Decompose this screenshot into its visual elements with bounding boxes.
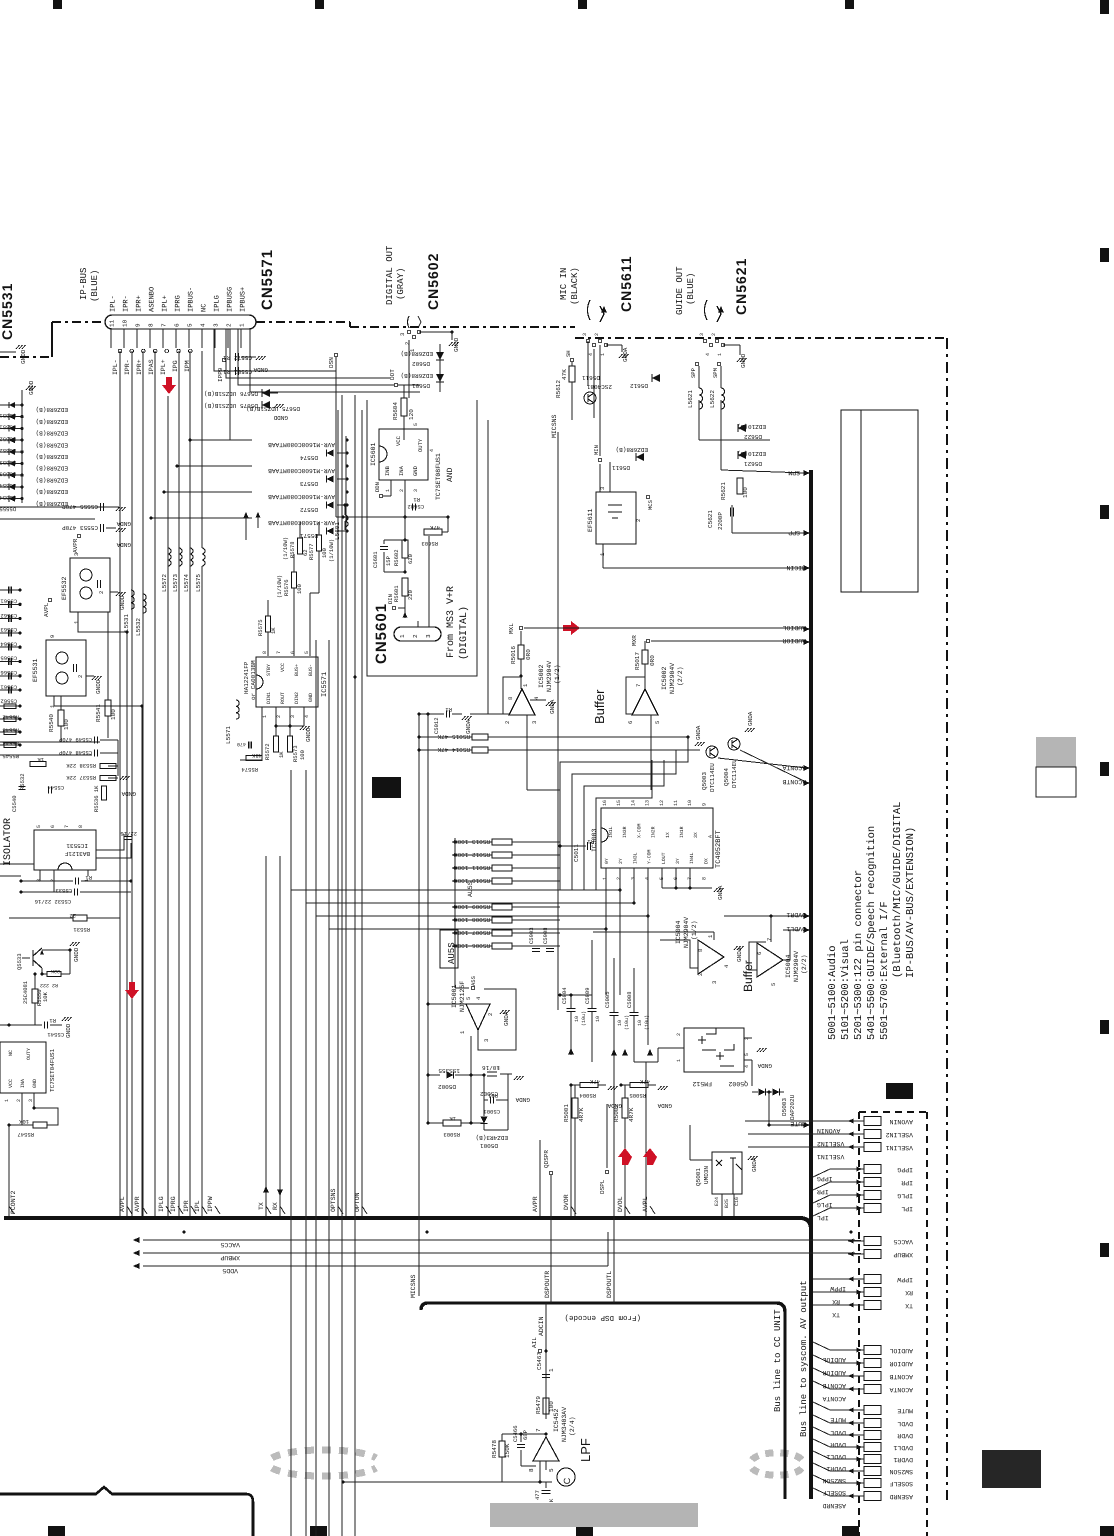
svg-text:ACONTB: ACONTB — [889, 1373, 913, 1380]
svg-text:2: 2 — [404, 342, 411, 345]
svg-text:1K: 1K — [270, 627, 277, 634]
transformer EF5532 — [70, 558, 110, 612]
wires around R557x — [299, 522, 301, 538]
inductors L5572-L5575 in IP lines — [168, 548, 171, 566]
svg-text:10K: 10K — [42, 991, 49, 1002]
svg-text:D5612: D5612 — [630, 382, 648, 389]
svg-text:R5537 22K: R5537 22K — [66, 774, 96, 781]
svg-text:GNDA: GNDA — [751, 1157, 758, 1172]
svg-text:IPL-: IPL- — [112, 359, 119, 375]
wire SPP to bus — [731, 505, 733, 533]
diode rows right rail — [345, 436, 347, 1216]
capacitor C5555 470P — [100, 503, 102, 511]
svg-text:TC7SET08FUS1: TC7SET08FUS1 — [435, 453, 442, 500]
svg-text:IPBUS+: IPBUS+ — [240, 287, 248, 312]
svg-text:NC: NC — [201, 304, 209, 312]
svg-text:5: 5 — [304, 651, 310, 654]
svg-text:QDSPR: QDSPR — [543, 1150, 550, 1168]
svg-text:R5604: R5604 — [392, 402, 399, 420]
svg-text:3: 3 — [28, 1099, 34, 1102]
svg-text:1: 1 — [548, 1368, 555, 1372]
svg-text:5: 5 — [465, 997, 472, 1000]
svg-text:8: 8 — [262, 651, 268, 654]
thick bus isolator bottom — [0, 1487, 253, 1536]
svg-text:EDZ6R8(B): EDZ6R8(B) — [36, 453, 68, 460]
svg-text:R5479: R5479 — [535, 1396, 542, 1414]
svg-text:8: 8 — [148, 323, 155, 327]
svg-text:EDZ4R3(B): EDZ4R3(B) — [476, 1134, 508, 1141]
pad MCS — [646, 495, 650, 499]
svg-text:DVDL: DVDL — [897, 1420, 913, 1427]
capacitor C5536 22/16 — [125, 836, 132, 838]
svg-text:OUTY: OUTY — [417, 438, 424, 452]
svg-text:GNDD: GNDD — [119, 595, 126, 610]
svg-text:9: 9 — [49, 635, 56, 638]
wires diode rows to left bus — [229, 329, 231, 440]
svg-text:DSN: DSN — [328, 357, 335, 368]
svg-text:C5001: C5001 — [483, 1108, 500, 1115]
resistor R5572 1K — [274, 736, 279, 752]
svg-text:R5003: R5003 — [443, 1131, 460, 1138]
svg-text:(BLACK): (BLACK) — [570, 267, 580, 305]
svg-text:8: 8 — [507, 697, 514, 700]
capacitor C5572 R1 — [235, 353, 237, 361]
capacitor C5540 — [19, 786, 26, 788]
svg-text:IP-BUS/AV-BUS/EXTENSION): IP-BUS/AV-BUS/EXTENSION) — [905, 827, 917, 978]
svg-text:EDZ6R8(B): EDZ6R8(B) — [36, 488, 68, 495]
wire ADCIN — [545, 1303, 547, 1419]
svg-text:IPL-: IPL- — [110, 295, 118, 312]
svg-text:3: 3 — [699, 333, 705, 336]
wires opamp outputs into loops — [527, 789, 560, 791]
resistor R5016 0R0 — [518, 645, 524, 659]
capacitor C5005 10(10u) — [610, 1012, 619, 1014]
svg-text:AND: AND — [446, 467, 455, 482]
svg-text:IPL: IPL — [901, 1205, 913, 1212]
resistor ladder R5009-R5006 100K — [452, 906, 492, 908]
svg-text:IPLG: IPLG — [158, 1196, 165, 1212]
svg-text:3X: 3X — [693, 832, 699, 838]
svg-text:D5676 UDZS1B(B): D5676 UDZS1B(B) — [204, 390, 258, 397]
wires inverter to R5547 — [21, 1093, 23, 1125]
diode column common rail — [21, 397, 23, 503]
svg-text:2SC4081: 2SC4081 — [586, 383, 612, 390]
svg-text:MUTE: MUTE — [897, 1407, 913, 1414]
svg-text:GNDA: GNDA — [503, 1011, 510, 1026]
svg-text:ADCIN: ADCIN — [538, 1316, 545, 1336]
svg-text:CN5531: CN5531 — [0, 283, 15, 340]
resistor R5574 48K — [246, 756, 262, 761]
AU5S rail — [454, 838, 456, 985]
svg-text:DVOL: DVOL — [617, 1196, 624, 1212]
heavy bus horizontal bottom — [4, 1216, 800, 1220]
ground GNDA Q5003 — [695, 742, 705, 746]
capacitor 477 K — [545, 1482, 547, 1488]
svg-text:GNDA: GNDA — [695, 725, 702, 740]
svg-text:IPRG: IPRG — [170, 1196, 177, 1212]
svg-text:R01: R01 — [487, 1092, 498, 1099]
svg-text:IPLG: IPLG — [817, 1201, 833, 1208]
svg-text:RX: RX — [832, 1298, 840, 1305]
svg-text:22K: 22K — [51, 968, 60, 974]
svg-text:DVDL1: DVDL1 — [786, 925, 806, 932]
svg-text:2: 2 — [399, 489, 405, 492]
ground GNDA CN5611 — [606, 344, 622, 346]
long bus wires from CN5571 down the page — [119, 351, 121, 1216]
svg-text:D5622: D5622 — [744, 433, 762, 440]
svg-text:DSPOUTL: DSPOUTL — [606, 1271, 613, 1298]
svg-text:AUDIOL: AUDIOL — [822, 1356, 846, 1363]
svg-text:B25: B25 — [724, 1199, 730, 1208]
svg-text:AU5S: AU5S — [467, 881, 474, 897]
resistor R5536 1K — [102, 786, 107, 800]
svg-text:1: 1 — [707, 934, 714, 938]
transistor Q5533 2SC4081 — [22, 957, 30, 959]
svg-text:(10u): (10u) — [644, 1015, 650, 1030]
gray film mark cluster left — [272, 1450, 376, 1458]
svg-text:D5003: D5003 — [781, 1098, 788, 1116]
svg-text:DOT: DOT — [389, 369, 396, 380]
svg-text:DIN2: DIN2 — [294, 692, 300, 704]
wire horizontal y517 — [336, 516, 448, 518]
svg-text:4: 4 — [475, 996, 482, 1000]
svg-text:IPL+: IPL+ — [160, 359, 167, 375]
svg-text:5: 5 — [413, 423, 419, 426]
svg-text:(1/10W): (1/10W) — [328, 539, 335, 562]
svg-text:GNDD: GNDD — [305, 727, 312, 742]
svg-text:3: 3 — [399, 333, 406, 336]
svg-text:DAP202U: DAP202U — [789, 1094, 796, 1120]
ground GNDD C5541 — [50, 1024, 62, 1026]
svg-text:1: 1 — [239, 323, 246, 327]
terminal stub wires from bus — [813, 1169, 848, 1177]
svg-text:470: 470 — [237, 741, 246, 747]
svg-text:Y-COM: Y-COM — [647, 849, 653, 864]
isolator pin wires — [39, 870, 41, 881]
flag SPM on bus — [803, 470, 810, 476]
svg-text:10: 10 — [574, 1016, 580, 1022]
svg-text:100: 100 — [299, 750, 306, 760]
svg-text:1: 1 — [73, 620, 80, 624]
ground GNDD CN5621 — [723, 344, 740, 346]
svg-text:AUDIOR: AUDIOR — [822, 1369, 846, 1376]
svg-text:NJM2904V: NJM2904V — [546, 661, 553, 692]
svg-text:3: 3 — [425, 634, 432, 638]
pad A5S — [471, 986, 475, 990]
svg-text:C5540: C5540 — [11, 795, 18, 812]
svg-text:IPLG: IPLG — [214, 295, 222, 312]
svg-text:AU5S: AU5S — [447, 942, 457, 964]
svg-text:2: 2 — [504, 721, 511, 724]
svg-text:(2/2): (2/2) — [677, 666, 684, 686]
svg-text:SPM: SPM — [788, 469, 800, 476]
svg-text:2SC4081: 2SC4081 — [22, 980, 29, 1004]
svg-text:1: 1 — [602, 877, 608, 880]
svg-text:Bus line to CC UNIT: Bus line to CC UNIT — [773, 1309, 783, 1412]
opamp2 output down — [650, 715, 652, 790]
svg-text:8: 8 — [78, 825, 84, 828]
solid black patch bottom right — [982, 1450, 1041, 1488]
transformer EF5531 — [46, 640, 86, 696]
svg-text:(2/4): (2/4) — [569, 1416, 576, 1436]
LPF wires — [502, 1433, 546, 1435]
svg-text:MIC IN: MIC IN — [559, 268, 569, 300]
wires guide out to bus — [698, 400, 700, 440]
svg-text:LOUT: LOUT — [661, 852, 667, 864]
IC5571 HA12241FP body — [256, 657, 318, 707]
flag ACONTB — [740, 750, 806, 782]
svg-text:3: 3 — [213, 323, 220, 327]
svg-text:RX: RX — [272, 1202, 279, 1210]
svg-text:1K: 1K — [278, 751, 285, 758]
svg-text:SW25ON: SW25ON — [889, 1468, 913, 1475]
svg-text:GND: GND — [32, 1079, 38, 1088]
svg-text:8: 8 — [697, 949, 704, 952]
svg-text:5001~5100:Audio: 5001~5100:Audio — [827, 945, 839, 1040]
capacitor C5548 470P — [94, 750, 96, 757]
pad MXR — [646, 639, 650, 643]
svg-text:DVDR1: DVDR1 — [893, 1456, 913, 1463]
svg-text:BUS-: BUS- — [308, 664, 314, 676]
capacitor C5903 — [532, 948, 540, 950]
transistor Q5003 DTC114EU — [706, 746, 718, 758]
wires CN5601 pins — [417, 621, 419, 627]
svg-text:IPPG: IPPG — [897, 1166, 913, 1173]
svg-text:IN1L: IN1L — [608, 826, 614, 838]
svg-text:E24: E24 — [714, 1197, 720, 1206]
svg-text:(BLUE): (BLUE) — [90, 270, 100, 302]
svg-text:Bus line to syscom. AV output: Bus line to syscom. AV output — [799, 1280, 809, 1437]
wire IC5001 output down — [470, 1036, 472, 1123]
svg-text:IC5531: IC5531 — [66, 842, 88, 849]
svg-text:R5612: R5612 — [555, 380, 562, 398]
svg-text:IPPW: IPPW — [207, 1196, 214, 1212]
svg-text:IN4L: IN4L — [689, 852, 695, 864]
unit boundary chain line right side — [946, 338, 948, 1500]
svg-text:1: 1 — [4, 1099, 10, 1102]
resistor R5532 1K — [30, 762, 46, 767]
svg-text:3: 3 — [36, 879, 42, 882]
svg-text:XMBUP: XMBUP — [220, 1254, 240, 1261]
svg-text:22: 22 — [69, 912, 76, 919]
svg-text:C5008: C5008 — [626, 991, 633, 1008]
svg-text:6: 6 — [627, 721, 634, 724]
svg-text:MIN: MIN — [593, 445, 600, 455]
svg-text:100: 100 — [296, 584, 303, 594]
svg-text:477: 477 — [534, 1490, 541, 1500]
svg-text:48K: 48K — [251, 752, 262, 759]
wire pin2 bend right — [238, 329, 420, 385]
vertical wire MICSNS right — [557, 432, 559, 1010]
capacitor C5001 R01 — [490, 1097, 492, 1104]
svg-text:VCC: VCC — [395, 435, 402, 446]
svg-text:R5578: R5578 — [289, 541, 296, 558]
unit boundary chain line top-center — [256, 321, 350, 323]
transformer EF5611 — [596, 492, 636, 544]
svg-text:C5467: C5467 — [536, 1352, 543, 1370]
heavy bus from-DSP-encode — [421, 1303, 785, 1499]
svg-text:AVR-M1608C080MTAAB: AVR-M1608C080MTAAB — [268, 441, 335, 448]
svg-text:IP-BUS: IP-BUS — [79, 268, 89, 300]
svg-text:2: 2 — [50, 879, 56, 882]
svg-text:PCONT2: PCONT2 — [10, 1190, 17, 1214]
capacitor C5549 470P — [94, 737, 96, 744]
wires FM512 — [658, 1047, 684, 1049]
connector CN5621 jack — [705, 300, 708, 320]
svg-text:R5009 100K: R5009 100K — [454, 903, 490, 910]
resistor R5601 220 — [402, 578, 408, 596]
svg-text:ROUT: ROUT — [280, 692, 286, 704]
svg-text:D5602: D5602 — [412, 360, 430, 367]
resistor R5478 150K — [499, 1441, 505, 1457]
svg-text:C5581 R1: C5581 R1 — [223, 368, 252, 375]
svg-text:A: A — [707, 835, 713, 838]
left horizontal wire AVPL net — [0, 518, 95, 520]
registration marks bottom edge — [48, 1526, 65, 1536]
wires EF5611 to bus — [602, 544, 604, 568]
ground GNDD Q5533 — [42, 949, 70, 951]
svg-text:EDZ6R8(B): EDZ6R8(B) — [401, 350, 433, 357]
svg-text:DSPOUTR: DSPOUTR — [544, 1271, 551, 1298]
svg-text:CN5602: CN5602 — [425, 253, 441, 310]
svg-text:2: 2 — [676, 1033, 682, 1036]
wire DSPOUTL down — [613, 1030, 615, 1303]
svg-text:L5572: L5572 — [161, 574, 168, 592]
IC5003 TC4052BFT body — [601, 808, 713, 868]
svg-text:3: 3 — [413, 489, 419, 492]
svg-text:5201~5300:122 pin connector: 5201~5300:122 pin connector — [853, 870, 865, 1040]
svg-text:RX: RX — [905, 1289, 913, 1296]
svg-text:R5532: R5532 — [19, 773, 26, 790]
svg-text:R5602: R5602 — [393, 549, 400, 566]
svg-text:VCC: VCC — [8, 1079, 14, 1088]
svg-text:EDZ6R8(B): EDZ6R8(B) — [36, 476, 68, 483]
svg-text:IC5002: IC5002 — [661, 666, 668, 690]
svg-text:L5574: L5574 — [183, 574, 190, 592]
svg-text:100: 100 — [321, 548, 328, 558]
svg-text:100: 100 — [742, 487, 749, 498]
svg-text:R5538 22K: R5538 22K — [66, 762, 96, 769]
svg-text:D5611: D5611 — [582, 374, 600, 381]
flag AUDIOR — [803, 639, 810, 645]
svg-text:22/16: 22/16 — [120, 830, 137, 837]
svg-text:(Bluetooth/MIC/GUIDE/DIGITAL: (Bluetooth/MIC/GUIDE/DIGITAL — [892, 802, 904, 978]
svg-text:C5544: C5544 — [47, 784, 64, 791]
svg-text:R5576: R5576 — [283, 579, 290, 596]
svg-text:R5005: R5005 — [629, 1092, 646, 1099]
svg-text:SPP: SPP — [690, 368, 697, 378]
svg-text:(DIGITAL): (DIGITAL) — [458, 606, 470, 660]
svg-text:MCS: MCS — [647, 499, 654, 510]
svg-text:GNDD: GNDD — [740, 353, 747, 368]
svg-text:GNDA: GNDA — [465, 719, 472, 734]
svg-text:CN5571: CN5571 — [259, 249, 276, 310]
svg-text:7: 7 — [161, 323, 168, 327]
ground GNDD top left corner — [0, 351, 16, 353]
svg-text:IPR: IPR — [183, 1200, 190, 1212]
svg-text:R5547: R5547 — [17, 1131, 34, 1138]
svg-text:EDZ6R8(B): EDZ6R8(B) — [36, 430, 68, 437]
svg-text:OPTON: OPTON — [354, 1192, 361, 1212]
registration marks top edge — [53, 0, 62, 9]
connector CN5571 body — [105, 315, 256, 329]
svg-text:5: 5 — [187, 323, 194, 327]
svg-text:Q5003: Q5003 — [701, 772, 708, 790]
wire pin4 bend right — [214, 329, 336, 371]
flag MUTE — [803, 1122, 810, 1128]
svg-text:IPLG: IPLG — [897, 1192, 913, 1199]
svg-text:Q5004: Q5004 — [723, 768, 730, 786]
svg-text:R5575: R5575 — [257, 619, 264, 636]
svg-text:1K: 1K — [449, 1115, 456, 1122]
svg-text:10: 10 — [637, 1020, 643, 1026]
opamp2 feedback loop — [626, 677, 645, 714]
svg-text:IPPW: IPPW — [830, 1285, 846, 1292]
svg-text:3: 3 — [290, 715, 296, 718]
svg-text:ACONTB: ACONTB — [822, 1382, 846, 1389]
svg-text:DVDR1: DVDR1 — [786, 911, 806, 918]
svg-text:(2/2): (2/2) — [801, 954, 808, 974]
svg-text:GNDA: GNDA — [253, 366, 268, 373]
svg-text:6: 6 — [174, 323, 181, 327]
svg-text:ISOLATOR: ISOLATOR — [3, 818, 14, 866]
svg-text:D5002: D5002 — [438, 1083, 456, 1090]
resistor R5531 22 — [9, 917, 73, 919]
connector CN5601 body — [394, 627, 441, 641]
svg-text:UMD3N: UMD3N — [703, 1166, 710, 1184]
svg-text:8: 8 — [701, 877, 707, 880]
svg-text:GNDD: GNDD — [273, 414, 288, 421]
svg-text:LPF: LPF — [578, 1438, 593, 1462]
svg-text:GNDD: GNDD — [453, 337, 460, 352]
svg-text:D5001: D5001 — [480, 1142, 498, 1149]
svg-text:IPR-: IPR- — [124, 359, 131, 375]
capacitor C5532 22/16 — [21, 891, 72, 893]
wires R5015 R5014 — [488, 736, 688, 738]
svg-text:Q5002: Q5002 — [728, 1080, 748, 1087]
svg-text:X-COM: X-COM — [636, 823, 642, 838]
wire CN5602 pin1 down — [408, 340, 410, 398]
nested wire loops to IC5003 — [560, 737, 688, 890]
red arrow left of AU5S — [125, 982, 139, 999]
svg-text:C5602: C5602 — [407, 503, 424, 510]
left horizontal wire AVPR net — [0, 506, 119, 508]
svg-text:12: 12 — [659, 800, 665, 806]
svg-text:GNDD: GNDD — [73, 947, 80, 962]
svg-text:IC5002: IC5002 — [538, 664, 545, 688]
color patch gray — [1036, 737, 1076, 767]
pads SPP SPM — [695, 362, 699, 366]
svg-text:IPAS: IPAS — [148, 359, 155, 375]
flag MICIN — [803, 565, 810, 571]
svg-text:4: 4 — [705, 353, 711, 356]
IC5531 BA3121F body — [34, 830, 96, 870]
opamp IC5002 2/2 — [632, 689, 658, 715]
svg-text:R2 222: R2 222 — [40, 982, 58, 988]
opamp IC5002 1/2 — [509, 689, 535, 715]
svg-text:EF5532: EF5532 — [61, 576, 68, 600]
svg-text:R5004: R5004 — [579, 1092, 596, 1099]
svg-text:EF5531: EF5531 — [32, 658, 39, 682]
svg-text:R5572: R5572 — [264, 743, 271, 760]
svg-text:0Y: 0Y — [604, 858, 610, 864]
svg-text:DTC114EU: DTC114EU — [709, 763, 716, 792]
svg-text:2200P: 2200P — [717, 512, 724, 530]
svg-text:VDD5: VDD5 — [222, 1267, 238, 1274]
svg-text:C5012: C5012 — [433, 717, 440, 734]
svg-text:ACONTA: ACONTA — [822, 1395, 846, 1402]
svg-text:10: 10 — [617, 1020, 623, 1026]
